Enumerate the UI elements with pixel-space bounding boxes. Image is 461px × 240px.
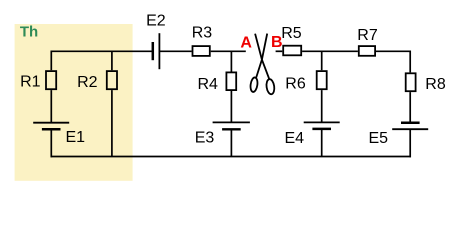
wire bottom rail bbox=[51, 156, 412, 158]
resistor R8 bbox=[406, 73, 416, 91]
battery E4 bbox=[304, 122, 340, 128]
resistor R2 bbox=[107, 71, 117, 89]
wire E4 to bottom rail bbox=[321, 129, 323, 157]
battery E5 bbox=[392, 123, 428, 130]
scissors cut mark bbox=[250, 34, 276, 95]
wire R8 to E5 bbox=[409, 92, 411, 122]
svg-text:B: B bbox=[271, 34, 283, 51]
svg-text:R4: R4 bbox=[198, 76, 219, 93]
svg-text:E1: E1 bbox=[66, 129, 86, 146]
wire R7 to top-right corner bbox=[376, 50, 410, 52]
wire E2 to R3 bbox=[159, 50, 191, 52]
wire R6 branch top bbox=[321, 51, 323, 70]
wire R6 to E4 bbox=[321, 90, 323, 122]
svg-text:R7: R7 bbox=[357, 27, 378, 44]
svg-text:A: A bbox=[240, 35, 252, 52]
wire top-left horizontal bbox=[51, 50, 152, 52]
svg-text:R8: R8 bbox=[425, 76, 446, 93]
wire R2 branch top bbox=[111, 51, 113, 70]
wire E1 to bottom rail bbox=[50, 129, 52, 157]
wire node B to R5 bbox=[276, 50, 283, 52]
resistor R6 bbox=[317, 71, 327, 89]
Thevenin highlight box bbox=[15, 24, 133, 181]
wire R2 to bottom rail bbox=[111, 90, 113, 156]
wire R3 to node A bbox=[211, 50, 246, 52]
wire right branch top bbox=[409, 51, 411, 73]
wire R1 branch top bbox=[50, 51, 52, 71]
svg-text:E3: E3 bbox=[195, 130, 215, 147]
resistor R3 bbox=[193, 46, 210, 56]
svg-text:E5: E5 bbox=[369, 130, 389, 147]
svg-text:R2: R2 bbox=[77, 74, 98, 91]
resistor R1 bbox=[46, 71, 56, 89]
resistor R5 bbox=[283, 46, 301, 56]
svg-text:R1: R1 bbox=[20, 74, 41, 91]
resistor R4 bbox=[226, 72, 236, 90]
svg-text:R6: R6 bbox=[285, 75, 306, 92]
svg-text:Th: Th bbox=[20, 24, 38, 41]
battery E1 bbox=[33, 123, 69, 130]
resistor R7 bbox=[359, 46, 375, 56]
wire R4 to E3 bbox=[230, 91, 232, 122]
svg-text:R5: R5 bbox=[281, 25, 302, 42]
svg-text:E4: E4 bbox=[285, 130, 305, 147]
wire R5 to R7 bbox=[302, 50, 358, 52]
battery E3 bbox=[213, 122, 250, 129]
wire E5 to bottom rail bbox=[409, 129, 411, 157]
battery E2 bbox=[153, 33, 160, 69]
svg-text:E2: E2 bbox=[146, 13, 166, 30]
svg-text:R3: R3 bbox=[192, 24, 213, 41]
wire R1 to E1 bbox=[50, 90, 52, 122]
wire E3 to bottom rail bbox=[230, 130, 232, 156]
wire R4 branch top bbox=[230, 51, 232, 71]
